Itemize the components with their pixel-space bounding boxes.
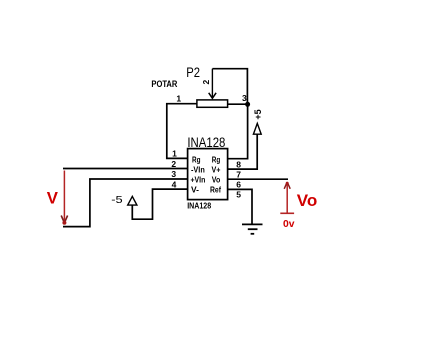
svg-text:V-: V- [191, 184, 199, 194]
pin number 8 [236, 160, 241, 170]
svg-text:Vo: Vo [297, 191, 318, 210]
svg-text:Rg: Rg [212, 154, 221, 164]
label 0v (red) [283, 218, 295, 230]
label P2 [186, 65, 200, 80]
label POTAR [151, 79, 177, 89]
label INA128 (above box) [187, 135, 225, 150]
svg-text:3: 3 [242, 93, 247, 103]
wire pot pin3 to junction [228, 103, 248, 105]
svg-text:INA128: INA128 [187, 201, 211, 211]
svg-text:-5: -5 [111, 194, 123, 206]
svg-text:Ref: Ref [210, 184, 221, 194]
wire pot pin1 to IC pin1 (Rg) [167, 104, 197, 159]
svg-text:Rg: Rg [192, 154, 201, 164]
svg-text:2: 2 [171, 159, 176, 169]
pin label Rg (pin1) [192, 154, 201, 164]
pin label -VIn (pin2) [191, 164, 205, 174]
svg-text:+VIn: +VIn [191, 174, 206, 184]
potentiometer P2 body [197, 100, 228, 107]
pin label +VIn (pin3) [191, 174, 206, 184]
svg-text:-VIn: -VIn [191, 164, 205, 174]
output voltage arrow (red, up) [280, 182, 294, 214]
ground [242, 224, 263, 233]
label INA128 (below box) [187, 201, 211, 211]
node junction dot (pot pin3 / wiper / Rg) [245, 102, 250, 107]
svg-text:INA128: INA128 [187, 135, 225, 150]
pin number 1 [172, 149, 177, 159]
pin label V- (pin4) [191, 184, 199, 194]
pin label Ref (pin5) [210, 184, 221, 194]
wire IC pin5 (Ref) to ground [228, 189, 252, 224]
pin number 5 [236, 189, 241, 199]
pot pin 1 number [176, 94, 181, 104]
label -5 [111, 194, 123, 206]
wire wiper (pin2) to pin3 junction [212, 69, 247, 105]
wire IC pin4 (V-) to -5 supply [132, 189, 187, 219]
svg-text:3: 3 [171, 169, 176, 179]
label V (input, red) [47, 188, 59, 207]
svg-text:8: 8 [236, 160, 241, 170]
wire IC pin2 (-VIn) to input terminal [63, 168, 188, 170]
input voltage arrow (red, down) [61, 171, 67, 225]
label +5 (rotated) [253, 109, 263, 119]
svg-text:2: 2 [201, 79, 211, 84]
wire IC pin3 (+VIn) to input return [63, 179, 188, 227]
wire IC pin6 (Vo) output [228, 178, 288, 180]
op-amp U1 INA128 box [188, 149, 228, 200]
pin label V+ (pin7) [212, 164, 221, 174]
svg-text:0v: 0v [283, 218, 295, 230]
power symbol +5 supply arrow [253, 123, 261, 134]
svg-text:5: 5 [236, 189, 241, 199]
wire junction to IC pin8 (Rg) [228, 104, 248, 158]
wire IC pin7 (V+) to +5 supply [228, 134, 258, 169]
pot pin 3 number [242, 93, 247, 103]
pin number 4 [172, 179, 177, 189]
svg-text:P2: P2 [186, 65, 200, 80]
svg-text:V: V [47, 188, 59, 207]
pin number 3 [171, 169, 176, 179]
svg-text:Vo: Vo [212, 174, 221, 184]
svg-text:4: 4 [172, 179, 177, 189]
pin number 2 [171, 159, 176, 169]
svg-text:1: 1 [176, 94, 181, 104]
power symbol -5 supply arrow [128, 196, 137, 205]
pin number 7 [236, 169, 241, 179]
svg-text:POTAR: POTAR [151, 79, 177, 89]
pin number 6 [236, 179, 241, 189]
potentiometer P2 wiper arrow [209, 69, 216, 99]
svg-text:1: 1 [172, 149, 177, 159]
svg-text:7: 7 [236, 169, 241, 179]
pin label Vo (pin6) [212, 174, 221, 184]
svg-text:V+: V+ [212, 164, 221, 174]
pin label Rg (pin8) [212, 154, 221, 164]
svg-text:6: 6 [236, 179, 241, 189]
label Vo (output, red) [297, 191, 318, 210]
pot pin 2 number (rotated) [201, 79, 211, 84]
svg-text:+5: +5 [253, 109, 263, 119]
